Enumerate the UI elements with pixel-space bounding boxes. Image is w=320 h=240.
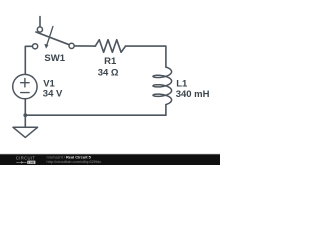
voltage source V1 circle bbox=[13, 74, 37, 98]
wire V1 to junction bbox=[24, 99, 26, 115]
svg-text:34 Ω: 34 Ω bbox=[98, 68, 119, 79]
svg-text:http://circuitlab.com/c6bp32f9: http://circuitlab.com/c6bp32f9dc bbox=[47, 159, 102, 164]
inductor L1 coil bbox=[153, 67, 172, 104]
wire bottom net bbox=[25, 114, 166, 116]
wire ground lead bbox=[24, 115, 26, 127]
switch SW1 lever bbox=[36, 32, 69, 45]
resistor R1 bbox=[95, 40, 125, 53]
wire switch top stub bbox=[39, 17, 41, 27]
V1 minus sign bbox=[21, 92, 29, 94]
svg-text:LAB: LAB bbox=[28, 160, 35, 164]
switch arrow head bbox=[44, 44, 48, 49]
svg-text:SW1: SW1 bbox=[44, 53, 65, 64]
svg-text:L1: L1 bbox=[176, 78, 188, 89]
svg-text:34 V: 34 V bbox=[43, 89, 63, 100]
V1 plus sign bbox=[21, 79, 29, 87]
svg-text:340 mH: 340 mH bbox=[176, 89, 210, 100]
junction dot bottom net bbox=[23, 113, 27, 117]
ground symbol bbox=[13, 127, 38, 137]
wire switch to resistor bbox=[74, 45, 95, 47]
footer logo CIRCUIT LAB bbox=[16, 156, 36, 165]
switch actuation arrow bbox=[47, 27, 53, 46]
switch terminal top circle bbox=[37, 27, 42, 32]
footer banner bbox=[0, 154, 220, 165]
footer caption text bbox=[47, 155, 102, 164]
switch terminal left circle bbox=[33, 44, 38, 49]
switch terminal right circle bbox=[69, 43, 74, 48]
wire inductor bottom lead bbox=[165, 105, 167, 116]
svg-text:R1: R1 bbox=[104, 56, 117, 67]
wire from left switch terminal to V1 bbox=[25, 46, 32, 74]
wire resistor to top-right corner and down to inductor bbox=[126, 46, 166, 67]
